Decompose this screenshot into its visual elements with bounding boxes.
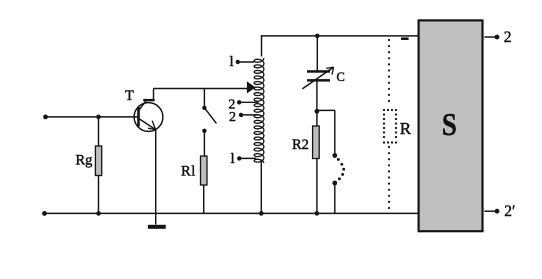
label S bbox=[442, 108, 457, 143]
node arc upper contact bbox=[332, 153, 337, 158]
wire output 2 top bbox=[484, 36, 497, 38]
wire tap 1 bottom bbox=[239, 157, 256, 159]
wire top rail coil to box S bbox=[261, 35, 420, 37]
label R1 bbox=[181, 164, 195, 180]
svg-text:l: l bbox=[230, 54, 234, 70]
wire emitter down bbox=[155, 130, 157, 225]
wire thick dash near box bbox=[401, 37, 409, 40]
node junction Rg/bottom rail bbox=[96, 211, 101, 216]
node input top-left terminal bbox=[43, 115, 48, 120]
switch blade (open) bbox=[204, 108, 216, 124]
capacitor C (variable) plates bbox=[307, 70, 330, 81]
transistor T emitter diagonal with arrow bbox=[140, 119, 156, 130]
svg-text:R: R bbox=[181, 164, 191, 180]
svg-text:2: 2 bbox=[229, 110, 236, 125]
wire coil bottom lead bbox=[260, 161, 262, 214]
wire switch upper lead bbox=[203, 89, 205, 108]
wire collector rail to coil arrow bbox=[154, 88, 248, 90]
transistor T collector diagonal bbox=[140, 101, 147, 110]
svg-text:R2: R2 bbox=[292, 137, 309, 153]
svg-text:2: 2 bbox=[504, 29, 512, 46]
label R2 bbox=[292, 137, 309, 153]
wire base lead from input to transistor bbox=[46, 116, 138, 118]
label tap 1 top bbox=[230, 54, 234, 70]
op-amp block S box bbox=[419, 20, 483, 231]
label tap 1 bottom bbox=[231, 151, 235, 167]
wire R1 bottom lead bbox=[203, 185, 205, 213]
wire dotted line (load branch) bbox=[388, 39, 390, 209]
node tap 2 upper dot bbox=[237, 100, 241, 104]
resistor R1 bbox=[201, 156, 208, 185]
svg-text:2′: 2′ bbox=[504, 203, 515, 220]
wire R2 bottom lead bbox=[316, 159, 318, 214]
node input bottom-left terminal bbox=[42, 211, 47, 216]
svg-text:R: R bbox=[400, 119, 412, 138]
wire tap 2 upper bbox=[239, 101, 258, 103]
ground bbox=[148, 225, 166, 229]
svg-text:S: S bbox=[442, 108, 457, 143]
svg-text:T: T bbox=[125, 88, 134, 104]
node junction base/Rg bbox=[96, 115, 101, 120]
wire arc branch horizontal bbox=[317, 109, 335, 111]
node switch lower contact bbox=[202, 129, 206, 133]
label tap 2 upper bbox=[228, 97, 235, 112]
wire bottom rail bbox=[45, 212, 420, 214]
arrowhead collector tap into coil bbox=[247, 81, 256, 93]
wire tap 1 top bbox=[238, 61, 254, 63]
node tap 1 bottom dot bbox=[237, 156, 241, 160]
capacitor C arrow bbox=[302, 67, 333, 89]
label C bbox=[337, 70, 345, 84]
resistor R dotted box bbox=[383, 109, 397, 144]
label 2 bbox=[504, 29, 512, 46]
wire C bottom to R2 bbox=[316, 82, 318, 127]
label tap 2 lower bbox=[229, 110, 236, 125]
node junction top rail / C branch bbox=[315, 34, 320, 39]
label Rg bbox=[76, 153, 93, 169]
wire coil top lead bbox=[261, 36, 263, 57]
transistor T circle bbox=[134, 103, 163, 132]
svg-text:C: C bbox=[337, 70, 345, 84]
node tap 2 lower dot bbox=[239, 113, 243, 117]
label T bbox=[125, 88, 134, 104]
wire arc branch vertical upper bbox=[334, 110, 336, 155]
svg-text:Rg: Rg bbox=[76, 153, 93, 169]
node arc lower contact bbox=[332, 181, 337, 186]
resistor Rg bbox=[95, 146, 101, 176]
resistor R2 bbox=[313, 126, 320, 159]
wire arc branch vertical lower bbox=[334, 183, 336, 213]
transistor T base bar bbox=[137, 107, 140, 127]
node junction C/R2/arc branch bbox=[315, 109, 320, 114]
node switch upper contact bbox=[202, 106, 206, 110]
wire Rg bottom lead bbox=[98, 176, 100, 214]
wire Rg top lead bbox=[98, 117, 100, 147]
inductor L coil loops bbox=[254, 58, 264, 163]
node junction coil/bottom rail bbox=[259, 211, 264, 216]
wire tap 2 lower bbox=[241, 114, 259, 116]
wire switch to R1 bbox=[203, 131, 205, 156]
label R bbox=[400, 119, 412, 138]
wire collector up bbox=[153, 89, 155, 101]
wire output 2' bottom bbox=[484, 210, 497, 212]
wire dotted arc bbox=[337, 158, 345, 180]
transistor T collector bar bbox=[143, 99, 154, 101]
node junction R2/bottom rail bbox=[315, 211, 320, 216]
svg-text:l: l bbox=[191, 164, 195, 180]
label 2' bbox=[504, 203, 515, 220]
wire C top lead bbox=[316, 36, 318, 71]
node tap 1 top dot bbox=[236, 60, 240, 64]
node output terminal 2' bbox=[495, 209, 500, 214]
svg-text:l: l bbox=[231, 151, 235, 167]
node output terminal 2 bbox=[495, 35, 500, 40]
